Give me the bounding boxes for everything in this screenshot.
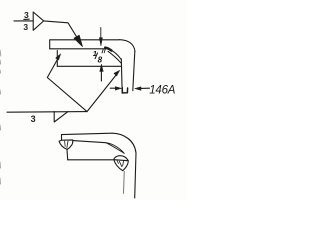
dimension D1 label 1/8" primes [102,49,105,53]
dimension D1 label 1/8" [93,49,103,65]
weld symbol W2 leader to tube corner [87,75,117,112]
weld bead B2 at tube inner bend [114,156,129,171]
plate P1 bottom edge [50,48,106,50]
svg-text:3: 3 [24,10,29,20]
weld bead B1 at strip end [59,140,73,149]
tube T1 inner vertical wall [120,59,123,93]
weld bead B1 hatch [65,141,68,148]
weld symbol W1 leader arrowhead [74,35,82,46]
scan edge marks [0,50,2,184]
figure 2: tube left end edge [66,150,69,160]
weld symbol W2 arrowhead at tube corner [114,70,120,76]
svg-text:8: 8 [98,55,103,64]
figure 2: strip left end [61,135,63,140]
dimension D2 left arrow (146A) [110,87,116,89]
plate P1 (flat bar) [50,40,119,49]
weld symbol W2 leader arrowhead at plate [56,54,61,60]
svg-text:146A: 146A [149,85,176,97]
dimension D1 up arrow (1/8 gap, bottom) [100,72,102,81]
tube T1 horizontal section left end [56,51,58,67]
svg-text:3: 3 [23,22,28,32]
weld symbol W2 fillet weld triangle [54,112,68,122]
tube T1 outer bend [119,40,135,52]
figure 2: tube inner vertical wall [123,171,126,193]
figure 2: tube top wall (mid line) [73,141,106,143]
weld symbol W1 fraction bar above line [24,18,29,20]
figure 2: tube outer vertical wall [135,153,136,198]
tube T1 outer vertical wall [133,52,135,91]
figure 2: tube bottom wall [68,159,114,161]
weld bead B2 chord [114,160,128,161]
weld symbol W1 arrow-side triangle [33,12,44,30]
tube T1 horizontal bottom wall [57,65,121,67]
figure 2: inner bend leaf [106,143,124,154]
dimension D1 down arrow (1/8 gap, top) [100,28,102,38]
weld symbol W1 reference line [14,20,33,22]
figure 2: strip top edge [62,133,113,134]
tube T1 end notch [122,88,127,93]
weld symbol W1 leader line [44,21,80,42]
weld symbol W2 leader to plate (dogleg) [47,57,87,112]
weld bead B2 hatch [117,161,124,167]
weld symbol W2 reference line [7,111,87,114]
weld fillet crescent at plate/tube inner bend [105,48,121,64]
svg-text:3: 3 [31,114,36,124]
dimension D2 right arrow (146A) [141,87,150,89]
figure 2: tube outer bend [112,133,136,153]
